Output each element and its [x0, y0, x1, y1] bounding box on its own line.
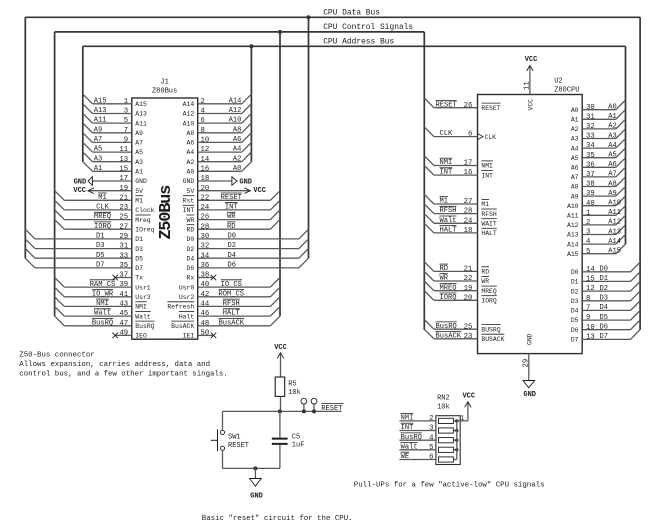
svg-text:9: 9 — [586, 314, 590, 322]
svg-text:A11: A11 — [94, 117, 107, 125]
svg-text:39: 39 — [119, 281, 128, 289]
svg-text:A13: A13 — [135, 111, 147, 118]
RN2 pin 2 (NMI) wire — [399, 414, 436, 423]
svg-text:Tx: Tx — [135, 275, 143, 282]
svg-text:A3: A3 — [135, 159, 143, 166]
J1 pin 24 (INT) right wire — [198, 200, 280, 212]
svg-text:23: 23 — [119, 204, 128, 212]
svg-text:2: 2 — [429, 415, 433, 423]
svg-text:IEO: IEO — [135, 333, 147, 340]
J1 inside pin name 5V — [135, 188, 143, 195]
J1 pin 41 (Usr3) left wire — [55, 287, 132, 299]
U2 inside pin name A0 — [571, 107, 579, 114]
svg-text:NMI: NMI — [135, 304, 147, 311]
junction gnd stem — [253, 466, 257, 470]
net label: CPU Data Bus — [323, 8, 380, 17]
svg-text:D7: D7 — [600, 333, 609, 341]
svg-text:HALT: HALT — [440, 227, 457, 235]
U2 pin 36 (A6) right wire — [582, 158, 625, 170]
svg-text:A13: A13 — [567, 232, 579, 239]
svg-text:CLK: CLK — [96, 204, 110, 212]
J1 pin 39 (Usr1) left wire — [55, 278, 132, 290]
svg-text:Z50-Bus connector: Z50-Bus connector — [19, 352, 94, 360]
svg-text:BusACK: BusACK — [436, 332, 462, 340]
U2 inside pin name A2 — [571, 126, 579, 133]
svg-text:D1: D1 — [135, 236, 143, 243]
J1 pin 15 (A1) left wire — [83, 162, 132, 174]
svg-text:INT: INT — [401, 424, 414, 432]
svg-text:A0: A0 — [571, 107, 579, 114]
J1 inside pin name A8 — [187, 130, 195, 137]
R5 value 10k — [288, 389, 301, 397]
svg-text:42: 42 — [201, 291, 210, 299]
J1 pin 27 (IOreq) left wire — [55, 220, 132, 232]
svg-text:A8: A8 — [233, 126, 242, 134]
J1 inside pin name A0 — [187, 169, 195, 176]
svg-text:VCC: VCC — [253, 187, 266, 195]
svg-text:Pull-UPs for a few "active-low: Pull-UPs for a few "active-low" CPU sign… — [354, 481, 545, 489]
svg-text:D0: D0 — [228, 233, 237, 241]
svg-text:Refresh: Refresh — [167, 304, 194, 311]
U2 pin 35 (A5) right wire — [582, 148, 625, 160]
J1 inside pin name D6 — [187, 265, 195, 272]
svg-text:D3: D3 — [600, 295, 609, 303]
svg-text:38: 38 — [201, 272, 210, 280]
U2 pin 3 (A13) right wire — [582, 225, 625, 237]
svg-text:2: 2 — [586, 219, 590, 227]
J1 pin 50 (IEI) right wire — [198, 330, 217, 339]
svg-text:M1: M1 — [135, 198, 143, 205]
svg-text:27: 27 — [119, 223, 128, 231]
resistor R5 — [275, 377, 285, 396]
svg-text:30: 30 — [201, 233, 210, 241]
U2 pin 20 (IORQ) left wire — [424, 291, 477, 303]
svg-text:CLK: CLK — [485, 134, 497, 141]
svg-text:10k: 10k — [437, 404, 450, 412]
svg-text:RD: RD — [227, 223, 236, 231]
svg-text:35: 35 — [119, 262, 128, 270]
svg-text:A11: A11 — [567, 213, 579, 220]
J1 inside pin name Usr3 — [135, 294, 151, 301]
reference designator U2 — [554, 77, 562, 85]
U2 inside pin name WAIT — [481, 219, 497, 228]
RN2 pin 3 (INT) wire — [399, 423, 436, 432]
svg-text:CPU Control Signals: CPU Control Signals — [323, 23, 413, 32]
ground symbol below U2 — [523, 381, 536, 400]
R5 reference — [288, 381, 296, 389]
big Z50Bus text inside connector — [157, 185, 176, 240]
svg-text:D6: D6 — [187, 265, 195, 272]
J1 pin 25 (Mreq) left wire — [55, 210, 132, 222]
RN2 pin 1 wire to VCC — [457, 410, 468, 424]
svg-text:NMI: NMI — [96, 300, 109, 308]
svg-text:Basic "reset" circuit for the: Basic "reset" circuit for the CPU. — [202, 515, 353, 523]
svg-text:GND: GND — [250, 493, 263, 501]
svg-text:A5: A5 — [94, 146, 103, 154]
svg-text:14: 14 — [201, 156, 210, 164]
svg-text:A6: A6 — [608, 161, 617, 169]
J1 pin 9 (A7) left wire — [83, 133, 132, 145]
power symbol VCC (RN2) — [462, 393, 475, 410]
J1 pin 4 (A12) right wire — [198, 104, 252, 116]
note: Z50-Bus connector description — [19, 352, 227, 379]
svg-text:A3: A3 — [608, 132, 617, 140]
svg-text:12: 12 — [201, 146, 210, 154]
switch SW1 push button — [211, 430, 225, 452]
J1 inside pin name GND — [135, 178, 147, 185]
svg-text:IOreq: IOreq — [135, 226, 154, 233]
U2 inside pin name D1 — [571, 279, 579, 286]
svg-text:36: 36 — [201, 262, 210, 270]
svg-text:Walt: Walt — [94, 310, 111, 318]
svg-text:RESET: RESET — [481, 105, 500, 112]
J1 pin 31 (D3) left wire — [25, 239, 132, 251]
junction RN2 common — [455, 439, 458, 442]
J1 inside pin name Usr2 — [179, 294, 195, 301]
U2 pin 22 (WR) left wire — [424, 271, 477, 283]
svg-text:CLK: CLK — [440, 130, 454, 138]
svg-text:IORQ: IORQ — [481, 298, 497, 305]
svg-text:A10: A10 — [229, 117, 242, 125]
svg-text:4: 4 — [429, 434, 434, 442]
svg-text:M1: M1 — [98, 194, 107, 202]
svg-text:D1: D1 — [96, 233, 105, 241]
bus: data bus vertical right of J1 — [308, 17, 310, 258]
svg-text:RESET: RESET — [321, 405, 342, 413]
U2 inside pin name RESET — [481, 103, 500, 112]
J1 inside pin name IEO — [135, 333, 147, 340]
svg-text:13: 13 — [119, 156, 128, 164]
J1 pin 46 (Halt) right wire — [198, 307, 280, 319]
J1 pin 44 (Refresh) right wire — [198, 297, 280, 309]
J1 pin 18 (GND) right wire — [198, 175, 252, 186]
J1 pin 32 (D2) right wire — [198, 239, 309, 251]
J1 inside pin name Rx — [187, 275, 195, 282]
J1 pin 10 (A6) right wire — [198, 133, 252, 145]
svg-text:RESET: RESET — [436, 101, 457, 109]
svg-text:3: 3 — [429, 425, 433, 433]
svg-text:RFSH: RFSH — [481, 211, 497, 218]
svg-text:30: 30 — [586, 104, 595, 112]
J1 pin 14 (A2) right wire — [198, 152, 252, 164]
svg-text:A14: A14 — [183, 101, 195, 108]
J1 pin 43 (NMI) left wire — [55, 297, 132, 309]
svg-text:Halt: Halt — [179, 313, 195, 320]
U2 inside pin name A14 — [567, 241, 579, 248]
svg-text:A11: A11 — [135, 120, 147, 127]
J1 inside pin name Refresh — [167, 302, 194, 311]
svg-text:A14: A14 — [229, 97, 242, 105]
svg-text:18: 18 — [464, 227, 473, 235]
svg-text:A1: A1 — [94, 165, 103, 173]
svg-text:34: 34 — [586, 142, 595, 150]
U2 inside pin name IORQ — [481, 296, 497, 305]
svg-text:MREQ: MREQ — [94, 213, 111, 221]
J1 inside pin name A2 — [187, 159, 195, 166]
svg-text:19: 19 — [464, 285, 473, 293]
svg-text:Rst: Rst — [183, 198, 195, 205]
bus: address bus vertical right of J1 — [250, 46, 252, 161]
bus: control bus vertical right of J1 — [279, 32, 281, 316]
RN2 internal resistor element 1 — [439, 418, 457, 423]
svg-text:A7: A7 — [94, 136, 103, 144]
J1 inside pin name D5 — [135, 255, 143, 262]
svg-text:RD: RD — [187, 226, 195, 233]
svg-text:3: 3 — [586, 229, 590, 237]
svg-text:A12: A12 — [608, 219, 621, 227]
J1 inside pin name Walt — [135, 312, 151, 321]
svg-text:INT: INT — [183, 207, 195, 214]
resistor network RN2 body — [436, 416, 460, 465]
J1 inside pin name A10 — [183, 120, 195, 127]
svg-text:38: 38 — [586, 181, 595, 189]
svg-text:A8: A8 — [571, 184, 579, 191]
svg-text:Walt: Walt — [135, 313, 151, 320]
U2 inside pin name A7 — [571, 174, 579, 181]
svg-text:MREQ: MREQ — [481, 288, 497, 295]
svg-text:9: 9 — [124, 137, 128, 145]
svg-text:D4: D4 — [571, 308, 579, 315]
svg-text:31: 31 — [119, 243, 128, 251]
svg-text:A13: A13 — [94, 107, 107, 115]
svg-text:45: 45 — [119, 310, 128, 318]
U2 inside pin name A5 — [571, 155, 579, 162]
J1 pin 17 (GND) left wire — [74, 175, 132, 186]
global label RESET (reset circuit) — [321, 403, 344, 413]
J1 pin 20 (5V) right wire — [198, 185, 266, 195]
svg-text:11: 11 — [119, 146, 128, 154]
J1 inside pin name A11 — [135, 120, 147, 127]
svg-text:5: 5 — [429, 444, 433, 452]
svg-text:A3: A3 — [94, 155, 103, 163]
J1 pin 11 (A5) left wire — [83, 142, 132, 154]
svg-text:D3: D3 — [571, 298, 579, 305]
power symbol VCC (reset circuit) — [274, 344, 287, 377]
svg-text:20: 20 — [201, 185, 210, 193]
svg-text:17: 17 — [464, 160, 473, 168]
svg-text:24: 24 — [201, 204, 210, 212]
svg-text:MREQ: MREQ — [440, 284, 457, 292]
svg-text:NMI: NMI — [440, 159, 453, 167]
U2 pin 31 (A1) right wire — [582, 110, 625, 122]
U2 pin 28 (RFSH) left wire — [424, 204, 477, 216]
svg-text:A0: A0 — [233, 165, 242, 173]
U2 pin 1 (A11) right wire — [582, 206, 625, 218]
U2 pin 38 (A8) right wire — [582, 177, 625, 189]
svg-text:Z50Bus: Z50Bus — [157, 185, 176, 240]
U2 inside pin name D4 — [571, 308, 579, 315]
svg-text:29: 29 — [119, 233, 128, 241]
svg-text:A14: A14 — [608, 238, 621, 246]
svg-text:28: 28 — [201, 223, 210, 231]
svg-text:A4: A4 — [233, 146, 242, 154]
U2 inside pin name A6 — [571, 165, 579, 172]
svg-text:GND: GND — [135, 178, 147, 185]
svg-text:10k: 10k — [288, 389, 301, 397]
junction: data bus / J1 right data column — [307, 15, 311, 19]
J1 inside pin name A12 — [183, 111, 195, 118]
svg-text:A15: A15 — [567, 251, 579, 258]
svg-text:NMI: NMI — [481, 163, 493, 170]
svg-text:SW1: SW1 — [228, 433, 241, 441]
U2 inside pin name RFSH — [481, 209, 497, 218]
svg-text:A2: A2 — [608, 123, 617, 131]
RN2 pin 6 (WE) wire — [399, 452, 436, 461]
J1 inside pin name Usr1 — [135, 284, 151, 291]
J1 pin 45 (Walt) left wire — [55, 307, 132, 319]
svg-text:40: 40 — [201, 281, 210, 289]
svg-text:D3: D3 — [135, 246, 143, 253]
U2 inside pin name M1 — [481, 199, 489, 208]
J1 pin 2 (A14) right wire — [198, 94, 252, 106]
svg-text:Mreq: Mreq — [135, 217, 151, 224]
U2 inside pin name A1 — [571, 117, 579, 124]
J1 inside pin name A15 — [135, 101, 147, 108]
svg-text:RD: RD — [481, 269, 489, 276]
value label Z80Bus — [152, 88, 177, 96]
svg-text:A12: A12 — [567, 222, 579, 229]
svg-text:INT: INT — [225, 204, 238, 212]
J1 inside pin name A5 — [135, 149, 143, 156]
bus: control bus left vertical — [54, 32, 56, 316]
RN2 reference — [437, 394, 450, 402]
net label: CPU Control Signals — [323, 23, 413, 32]
bus: data bus left vertical — [24, 17, 26, 258]
J1 pin 49 (IEO) left wire — [112, 330, 131, 339]
svg-text:A9: A9 — [571, 193, 579, 200]
wire R5 bottom to reset node — [280, 396, 282, 411]
svg-text:A7: A7 — [135, 140, 143, 147]
U2 inside pin name D6 — [571, 327, 579, 334]
J1 inside pin name A9 — [135, 130, 143, 137]
ground symbol (reset circuit) — [250, 468, 263, 500]
svg-text:VCC: VCC — [462, 393, 475, 401]
C5 value 1uF — [292, 442, 305, 450]
J1 inside pin name RD — [187, 225, 195, 234]
U2 pin 27 (M1) left wire — [424, 194, 477, 206]
U2 pin 29 GND wire — [522, 354, 530, 381]
svg-text:ROM_CS: ROM_CS — [219, 290, 245, 298]
svg-text:1uF: 1uF — [292, 442, 305, 450]
value label Z80CPU — [554, 87, 579, 95]
svg-text:10: 10 — [201, 137, 210, 145]
svg-text:Walt: Walt — [401, 443, 418, 451]
svg-text:A9: A9 — [608, 190, 617, 198]
svg-text:A8: A8 — [608, 180, 617, 188]
U2 pin 40 (A10) right wire — [582, 196, 625, 208]
J1 inside pin name WR — [187, 215, 195, 224]
U2 inside pin name A4 — [571, 145, 579, 152]
svg-text:33: 33 — [586, 133, 595, 141]
svg-text:D4: D4 — [600, 304, 609, 312]
J1 pin 6 (A10) right wire — [198, 113, 252, 125]
U2 pin 24 (WAIT) left wire — [424, 214, 477, 226]
U2 inside pin name A8 — [571, 184, 579, 191]
power symbol VCC above U2 — [525, 56, 538, 71]
svg-text:Rx: Rx — [187, 275, 195, 282]
svg-text:21: 21 — [119, 194, 128, 202]
C5 reference — [292, 433, 300, 441]
U2 inside pin name A9 — [571, 193, 579, 200]
U2 pin 21 (RD) left wire — [424, 262, 477, 274]
J1 inside pin name BusACK — [171, 321, 194, 330]
U2 pin 2 (A12) right wire — [582, 215, 625, 227]
svg-text:D5: D5 — [96, 252, 105, 260]
J1 pin 8 (A8) right wire — [198, 123, 252, 135]
J1 inside pin name Tx — [135, 275, 143, 282]
svg-text:A4: A4 — [571, 145, 579, 152]
svg-text:D2: D2 — [187, 246, 195, 253]
svg-text:WR: WR — [481, 278, 489, 285]
net label: CPU Address Bus — [323, 37, 394, 46]
svg-text:22: 22 — [464, 275, 473, 283]
U2 pin 12 (D2) right wire — [582, 282, 640, 294]
svg-text:A15: A15 — [608, 248, 621, 256]
svg-text:11: 11 — [524, 81, 532, 90]
J1 pin 48 (BusACK) right wire — [198, 316, 280, 328]
U2 pin 7 (D4) right wire — [582, 301, 640, 313]
svg-text:Usr1: Usr1 — [135, 284, 151, 291]
svg-text:A7: A7 — [571, 174, 579, 181]
svg-text:A1: A1 — [608, 113, 617, 121]
J1 pin 42 (Usr2) right wire — [198, 287, 280, 299]
svg-text:IO_WR: IO_WR — [92, 290, 114, 298]
U2 pin 33 (A3) right wire — [582, 129, 625, 141]
svg-text:16: 16 — [464, 169, 473, 177]
J1 pin 16 (A0) right wire — [198, 162, 252, 174]
J1 pin 26 (WR) right wire — [198, 210, 280, 222]
svg-text:A9: A9 — [94, 126, 103, 134]
svg-text:D6: D6 — [571, 327, 579, 334]
svg-text:1: 1 — [460, 415, 465, 423]
svg-text:34: 34 — [201, 252, 210, 260]
U2 pin 25 (BUSRQ) left wire — [424, 320, 477, 332]
svg-text:VCC: VCC — [274, 344, 287, 352]
svg-text:A4: A4 — [187, 149, 195, 156]
J1 pin 5 (A11) left wire — [83, 113, 132, 125]
RN2 internal resistor element 5 — [439, 457, 457, 462]
U2 pin 15 (D1) right wire — [582, 272, 640, 284]
svg-text:2: 2 — [201, 98, 205, 106]
svg-text:23: 23 — [464, 333, 473, 341]
svg-text:22: 22 — [201, 194, 210, 202]
J1 inside pin name Mreq — [135, 215, 151, 224]
U2 pin 11 VCC wire — [524, 71, 532, 94]
svg-text:5: 5 — [124, 117, 128, 125]
U2 inside pin name NMI — [481, 161, 493, 170]
svg-text:A5: A5 — [608, 152, 617, 160]
svg-text:43: 43 — [119, 301, 128, 309]
svg-text:VCC: VCC — [528, 99, 535, 111]
U2 inside pin name INT — [481, 171, 493, 180]
J1 inside pin name 5V — [187, 188, 195, 195]
svg-text:IO_CS: IO_CS — [221, 281, 242, 289]
U2 inside pin name VCC (rotated) — [528, 99, 535, 111]
svg-text:Z80CPU: Z80CPU — [554, 87, 579, 95]
U2 inside pin name RD — [481, 267, 489, 276]
svg-text:A0: A0 — [187, 169, 195, 176]
J1 inside pin name D0 — [187, 236, 195, 243]
J1 inside pin name D2 — [187, 246, 195, 253]
svg-text:27: 27 — [464, 198, 473, 206]
svg-text:5V: 5V — [187, 188, 195, 195]
J1 pin 33 (D5) left wire — [25, 249, 132, 261]
wire bottom gnd horizontal — [223, 467, 280, 469]
svg-text:A3: A3 — [571, 136, 579, 143]
U2 inside pin name WR — [481, 276, 489, 285]
svg-text:WE: WE — [401, 453, 410, 461]
svg-text:GND: GND — [74, 178, 87, 186]
